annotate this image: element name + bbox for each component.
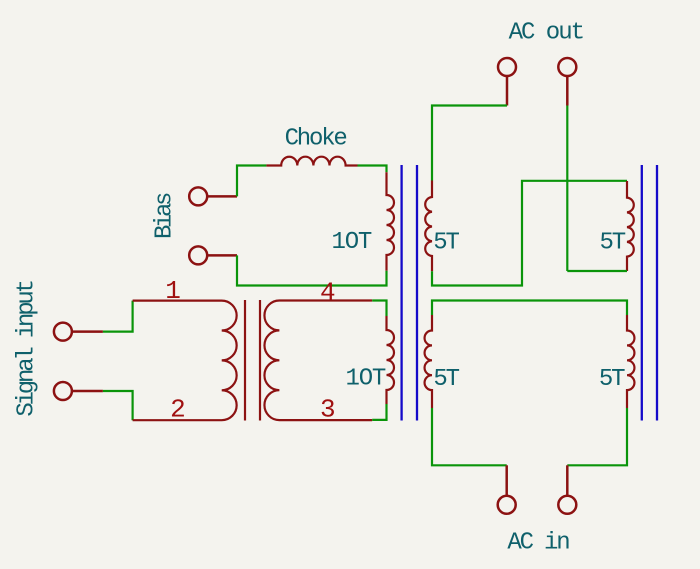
terminal circle AC in right [558, 496, 576, 514]
wire T1 pin 4 to lower 10T top [372, 301, 386, 317]
pin stub Signal top [72, 330, 103, 333]
pin stub Bias top [207, 195, 237, 198]
pin stub AC in right [566, 465, 569, 495]
terminal circle Bias top [189, 187, 207, 205]
wire lower 10T bottom to T1 pin 3 [372, 404, 386, 420]
pin stub AC out left [506, 76, 509, 105]
svg-text:5T: 5T [433, 229, 459, 256]
svg-text:AC out: AC out [509, 20, 583, 47]
transformer T1 primary winding with pins 1,2 [133, 301, 237, 421]
wire AC out left to upper-left 5T top [432, 106, 507, 181]
svg-text:Choke: Choke [285, 125, 347, 152]
wire lower-left 5T bottom to AC in left [432, 408, 507, 465]
transformer T1 core line right [259, 300, 261, 421]
terminal circle Bias bottom [189, 246, 207, 264]
svg-text:1OT: 1OT [332, 229, 372, 256]
wire lower bus top bar [432, 301, 627, 316]
svg-text:1: 1 [165, 276, 180, 306]
svg-text:5T: 5T [433, 366, 459, 393]
terminal circle AC in left [498, 496, 516, 514]
wire choke to upper 10T top [358, 166, 387, 173]
svg-text:Signal input: Signal input [14, 281, 41, 416]
svg-text:5T: 5T [599, 366, 625, 393]
winding T2A 5T upper-left [425, 181, 432, 272]
svg-text:2: 2 [170, 394, 184, 424]
wire AC out right down to upper-right 5T bottom net [566, 106, 568, 272]
wire upper-right 5T bottom to AC out right [567, 270, 627, 272]
wire upper 10T bottom to Bias bottom [237, 255, 387, 285]
core lines blue right pair [641, 165, 643, 421]
pin stub Signal bottom [72, 390, 103, 393]
pin stub AC out right [566, 76, 569, 105]
svg-text:3: 3 [320, 394, 334, 424]
terminal circle AC out left [498, 58, 516, 76]
winding T5A 5T lower-right [627, 315, 634, 408]
svg-text:5T: 5T [600, 230, 626, 257]
wire Bias top to choke [237, 166, 266, 197]
svg-text:4: 4 [320, 277, 335, 307]
winding T4A 5T lower-left [425, 315, 432, 408]
terminal circle Signal top [54, 323, 72, 341]
transformer T1 core line left [244, 300, 246, 421]
wire lower-right 5T bottom to AC in right [567, 408, 627, 465]
transformer T1 secondary winding with pins 4,3 [264, 301, 372, 421]
core lines blue left pair [400, 165, 402, 421]
wire Signal bottom to T1 pin 2 [103, 391, 133, 420]
winding T2B 10T upper [387, 172, 395, 270]
winding T?B 10T lower [387, 316, 395, 404]
svg-text:1OT: 1OT [346, 366, 386, 393]
svg-text:Bias: Bias [151, 193, 178, 239]
inductor L1 Choke [266, 157, 357, 166]
svg-text:AC in: AC in [507, 529, 569, 556]
winding T3A 5T upper-right [627, 181, 634, 271]
pin stub Bias bottom [207, 254, 237, 257]
wire Signal top to T1 pin 1 [103, 301, 133, 332]
pin stub AC in left [505, 465, 508, 495]
wire upper-left 5T bottom to upper-right 5T top [432, 181, 627, 286]
terminal circle Signal bottom [54, 382, 72, 400]
terminal circle AC out right [558, 58, 576, 76]
